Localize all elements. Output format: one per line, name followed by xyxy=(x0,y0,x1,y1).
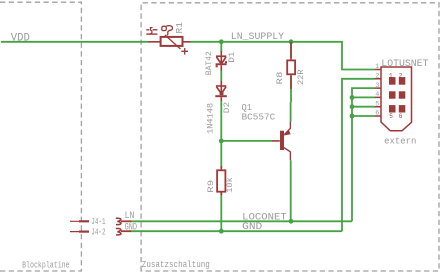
svg-text:GND: GND xyxy=(125,222,138,233)
svg-text:LN: LN xyxy=(125,211,135,222)
svg-text:2: 2 xyxy=(399,72,403,79)
svg-text:3: 3 xyxy=(375,82,379,90)
svg-text:1N4148: 1N4148 xyxy=(206,103,216,134)
svg-text:VDD: VDD xyxy=(11,33,30,45)
svg-text:R1: R1 xyxy=(175,22,185,34)
svg-text:10k: 10k xyxy=(225,177,235,192)
svg-text:1: 1 xyxy=(375,63,379,71)
svg-text:6: 6 xyxy=(375,110,379,118)
svg-text:4: 4 xyxy=(375,91,379,99)
svg-text:5: 5 xyxy=(389,113,393,120)
svg-text:D2: D2 xyxy=(222,102,232,113)
svg-text:R9: R9 xyxy=(206,180,216,193)
svg-text:22R: 22R xyxy=(296,70,306,86)
svg-text:Zusatzschaltung: Zusatzschaltung xyxy=(142,259,210,270)
svg-text:1: 1 xyxy=(389,72,393,79)
svg-text:extern: extern xyxy=(384,136,416,147)
svg-text:BAT42: BAT42 xyxy=(204,51,214,75)
svg-text:R8: R8 xyxy=(275,72,285,85)
svg-text:BC557C: BC557C xyxy=(242,112,276,123)
svg-text:Blockplatine: Blockplatine xyxy=(22,260,70,271)
svg-text:6: 6 xyxy=(399,113,403,120)
svg-text:5: 5 xyxy=(375,100,379,108)
svg-text:LN_SUPPLY: LN_SUPPLY xyxy=(231,32,284,43)
svg-text:LOTUSNET: LOTUSNET xyxy=(381,58,428,69)
svg-text:J4-1: J4-1 xyxy=(91,217,105,227)
svg-text:2: 2 xyxy=(375,73,379,81)
svg-text:GND: GND xyxy=(242,222,262,233)
svg-text:D1: D1 xyxy=(227,52,237,63)
svg-text:J4-2: J4-2 xyxy=(91,227,105,237)
